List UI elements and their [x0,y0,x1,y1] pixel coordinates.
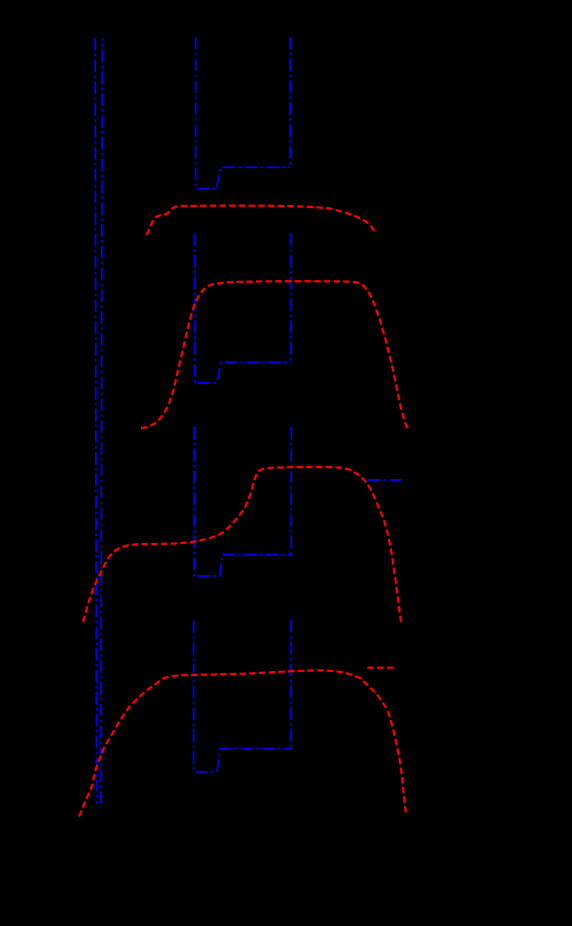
red dashed curve, row 4 [79,670,406,816]
blue dash-dot vertical, row 2 right [290,233,292,362]
blue dash-dot step curve, row 1 [196,37,291,189]
blue dash-dot step curve, row 2 [195,233,291,383]
red dashed isolated segment, row 4 right [367,667,393,669]
blue dash-dot vertical, row 3 right [290,427,292,555]
blue dash-dot vertical, row 1 right [289,37,291,167]
blue dash-dot vertical line, left pair outer [95,38,97,804]
red dashed curve, row 1 [147,206,376,235]
blue dash-dot isolated segment, row 3 right [368,479,401,481]
red dashed curve, row 2 [141,281,408,429]
blue dash-dot step curve, row 3 [194,427,291,576]
blue dash-dot vertical line, left pair inner [101,38,103,804]
blue dash-dot step curve, row 4 [194,621,291,772]
red dashed curve, row 3 [83,467,401,622]
blue dash-dot vertical, row 4 right [290,620,292,749]
